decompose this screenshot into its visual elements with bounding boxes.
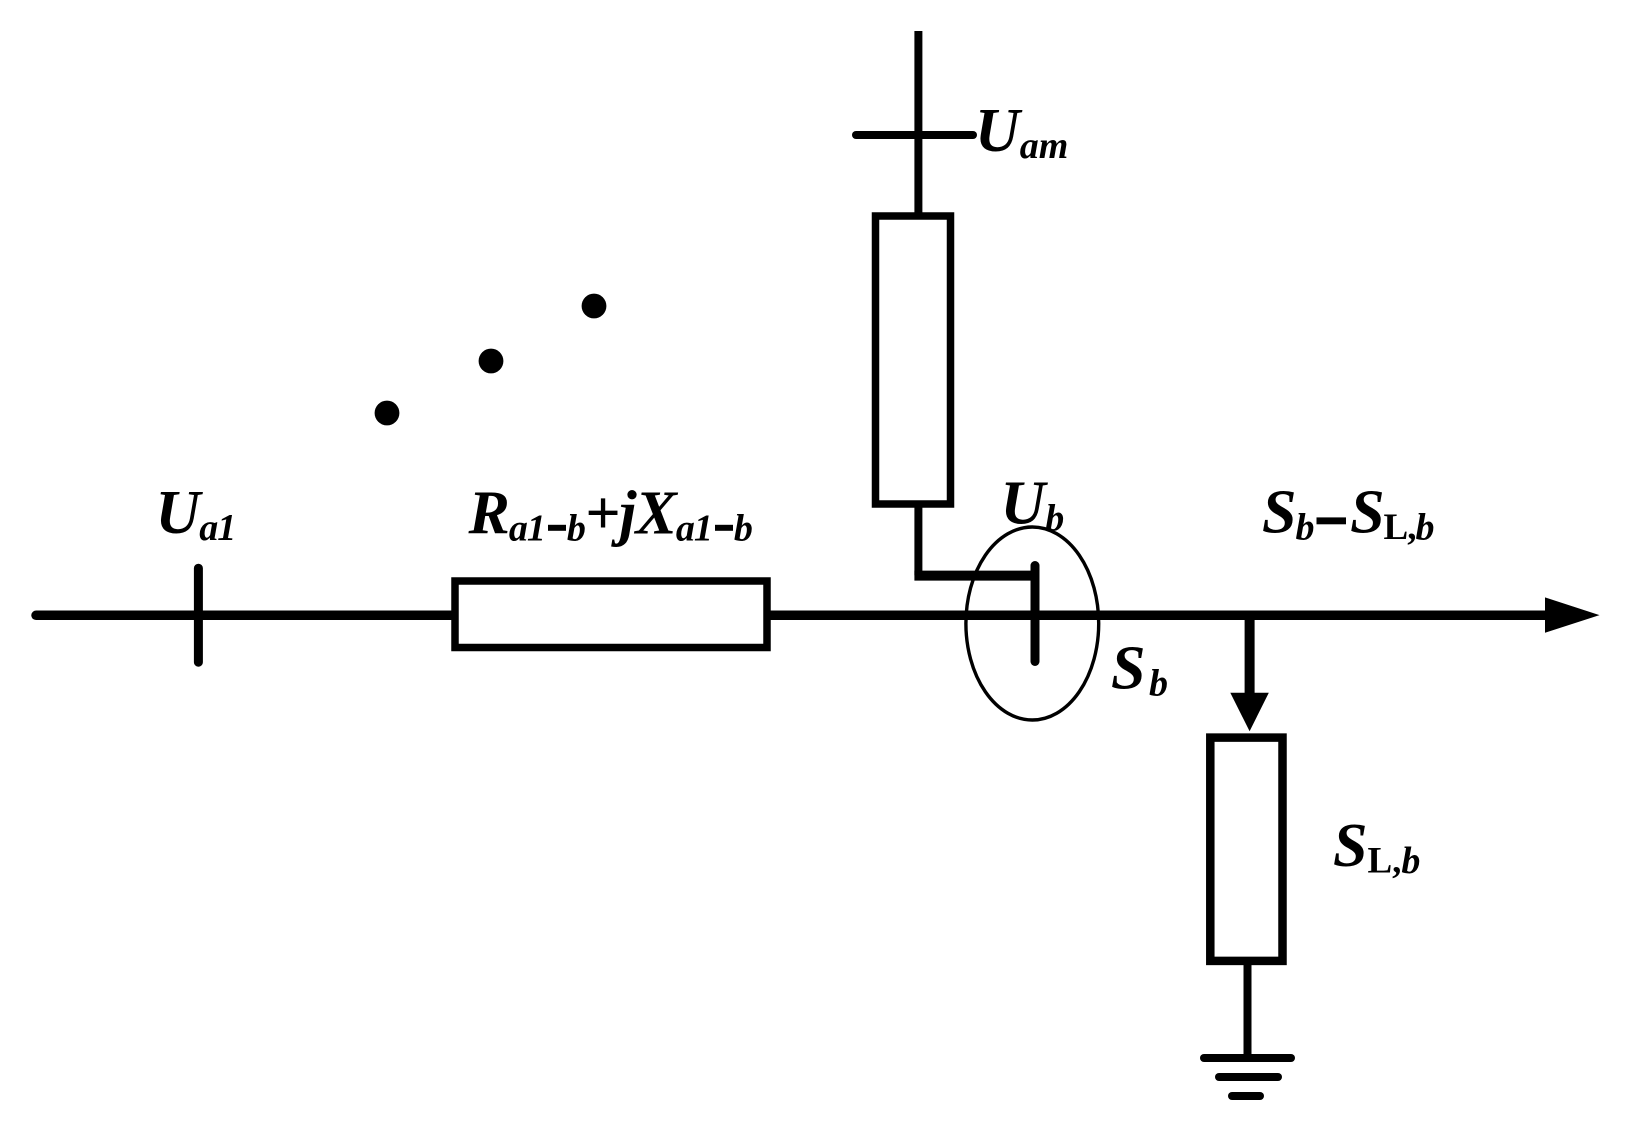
- node C: bus bar tick Ub: [1031, 566, 1040, 662]
- svg-text:Sb−SL,b: Sb−SL,b: [1262, 479, 1433, 551]
- minus bar in first subscript of R label: [548, 525, 566, 531]
- node dot 3: [582, 294, 607, 319]
- node dot 1 (continuation dots): [375, 401, 400, 426]
- node B: bus bar tick Uam: [856, 131, 973, 139]
- arrowhead: load arrow down: [1230, 693, 1269, 732]
- resistor: upstream line impedance box (vertical): [876, 216, 951, 504]
- svg-text:Ua1: Ua1: [156, 479, 236, 549]
- node A: bus bar tick Ua1: [194, 568, 203, 662]
- svg-text:SL,b: SL,b: [1333, 812, 1420, 882]
- svg-text:Ra1−b+jXa1−b: Ra1−b+jXa1−b: [468, 480, 752, 550]
- minus bar in second subscript of R label: [715, 525, 733, 531]
- wire: top branch vertical line: [914, 31, 922, 214]
- resistor SL,b (load impedance box, vertical): [1210, 738, 1282, 961]
- svg-text:Sb: Sb: [1111, 635, 1168, 705]
- wire: main horizontal feeder line: [36, 611, 1560, 621]
- svg-text:Uam: Uam: [975, 97, 1068, 167]
- wire: load branch vertical line with arrow: [1245, 617, 1255, 700]
- ground: [1204, 1058, 1291, 1096]
- minus bar between Sb and SL,b: [1317, 517, 1347, 524]
- ellipse: highlight around Ub bus node: [966, 527, 1099, 720]
- resistor Ra1-b+jXa1-b (series line impedance box): [455, 581, 767, 648]
- arrowhead: feeder output arrow: [1545, 597, 1600, 632]
- wire: load to ground: [1244, 961, 1252, 1058]
- svg-text:Ub: Ub: [1001, 470, 1065, 540]
- wire: horizontal jog to Ub bus: [914, 571, 1035, 581]
- wire: below top impedance down to jog: [914, 504, 922, 575]
- node dot 2: [479, 349, 504, 374]
